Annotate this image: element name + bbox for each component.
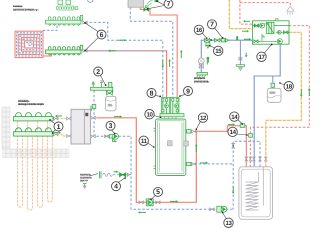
leader text makeup	[90, 174, 99, 176]
flow arrow V1 down	[162, 60, 164, 66]
leader 16	[202, 33, 206, 38]
pump 3 group on HP return	[105, 133, 119, 141]
flow arrow brine upper left	[57, 115, 62, 117]
label 12	[198, 113, 207, 122]
leader 4	[119, 178, 126, 182]
svg-text:dolnego źródła ciepła: dolnego źródła ciepła	[18, 103, 44, 106]
flow arrow drain down	[245, 53, 247, 56]
brine manifold M3	[14, 113, 54, 121]
leader lines	[50, 1, 284, 219]
label 15	[214, 46, 223, 55]
flow arrow red to tank right	[228, 123, 233, 125]
distribution beam 10	[160, 114, 184, 120]
leader 3	[112, 130, 115, 134]
svg-text:16: 16	[196, 27, 203, 34]
svg-text:ogrzewania podłogowego: ogrzewania podłogowego	[13, 8, 39, 11]
CWU expansion vessel 18	[267, 83, 281, 102]
risers group above buffer	[162, 98, 180, 114]
expansion safety group 2	[91, 81, 113, 109]
label 1	[54, 122, 63, 131]
label 14a	[230, 112, 239, 121]
svg-text:zimnej wody: zimnej wody	[194, 80, 209, 83]
svg-text:4: 4	[114, 184, 118, 191]
buffer lower stub valve	[187, 162, 197, 165]
leader 1a	[50, 120, 55, 124]
leader 9	[180, 94, 185, 96]
wire: cold water from station to tank	[254, 44, 280, 167]
leader 14a	[238, 120, 243, 125]
leader 11	[148, 143, 154, 147]
svg-text:14: 14	[230, 129, 237, 136]
svg-text:3: 3	[109, 123, 113, 130]
leader 7a1	[157, 1, 165, 5]
PIPES-LAYER	[57, 0, 310, 209]
text block ground source	[18, 100, 44, 105]
floor heating spiral red	[15, 31, 52, 57]
label 4	[112, 182, 121, 191]
SPIRAL	[15, 25, 57, 58]
label 6	[97, 30, 106, 39]
wireless sensor square	[155, 0, 159, 2]
label 10	[145, 110, 154, 119]
flow arrow circ vertical down	[300, 89, 302, 95]
buffer sensor pockets	[168, 141, 173, 146]
drain valve and funnel	[236, 57, 244, 71]
svg-text:17: 17	[259, 54, 266, 61]
wire: underfloor return H1	[85, 22, 163, 97]
wire: underfloor supply H2 dash	[85, 50, 167, 52]
flow arrow H1 right	[118, 39, 124, 41]
radiator	[128, 0, 144, 9]
text block underfloor	[13, 5, 34, 10]
valve 14b on dashed red drop	[249, 134, 253, 138]
heat pump	[71, 109, 91, 144]
leader dots	[49, 1, 280, 214]
leader 12	[196, 121, 200, 129]
label 8	[147, 89, 156, 98]
water meter	[198, 58, 204, 64]
flow arrow bottom blue left	[140, 211, 146, 213]
svg-text:7: 7	[210, 22, 214, 29]
HP unions right supply	[54, 116, 96, 138]
makeup hose 4	[99, 171, 129, 178]
flow arrow dhw dashed up	[308, 90, 310, 96]
manifold M1 upper floor-heating	[46, 15, 83, 25]
svg-text:12: 12	[200, 115, 207, 122]
DHW tank stub unions	[245, 157, 267, 161]
wire: buffer to DHW red	[194, 126, 246, 167]
circled numbers	[54, 0, 293, 228]
ground wall hatch	[2, 107, 10, 149]
valve group 7b on cold main	[215, 38, 229, 42]
svg-text:13: 13	[226, 220, 233, 227]
wire: expansion branch	[93, 90, 95, 136]
wire: buffer lower stub line	[194, 163, 233, 165]
label 18	[284, 82, 293, 91]
leader 1b	[53, 130, 56, 134]
junction dot cold main	[210, 39, 212, 41]
sensor nub on cold main	[236, 36, 238, 40]
svg-text:instalacja: instalacja	[13, 5, 23, 8]
manifold M2 lower floor-heating	[46, 45, 83, 55]
expansion vessel 2	[106, 96, 116, 111]
brine manifold M4	[14, 128, 54, 136]
buffer top stub valve 12 line	[187, 130, 197, 134]
wire: underfloor supply H2 base	[85, 51, 167, 97]
svg-text:15: 15	[215, 48, 222, 55]
ARROWS-LAYER	[54, 20, 311, 214]
flow arrow dhw vertical down	[232, 186, 234, 192]
manifold M1 union	[83, 21, 87, 24]
svg-text:11: 11	[141, 138, 148, 145]
pump 13	[210, 206, 227, 212]
cut label circle top	[88, 0, 93, 2]
flow arrow V4 up	[180, 52, 182, 58]
text block makeup	[80, 174, 91, 182]
svg-text:8: 8	[150, 90, 154, 97]
flow arrow brine lower right	[54, 132, 59, 134]
leader 2	[101, 76, 106, 86]
svg-text:6: 6	[100, 32, 104, 39]
backflow preventer 16	[204, 38, 209, 42]
svg-text:10: 10	[147, 112, 154, 119]
wire: brine upper	[57, 118, 67, 120]
flow arrow cold main right	[244, 38, 249, 40]
svg-text:zład. "x": zład. "x"	[80, 179, 88, 182]
fresh water station 17	[252, 21, 289, 44]
leader 6b	[85, 38, 98, 51]
svg-text:2: 2	[96, 69, 100, 76]
leader 6a	[85, 23, 98, 32]
label 3	[106, 121, 115, 130]
wire: DHW return dashed red right	[250, 26, 309, 167]
wire: brine lower	[57, 134, 67, 136]
label 7b	[208, 20, 217, 29]
wire: cwu vessel branch	[272, 76, 274, 88]
cold water source symbol	[197, 72, 208, 77]
drain cock corner	[83, 184, 87, 189]
flow arrow buffer stub right	[200, 162, 206, 164]
wire: circulation orange dash	[229, 0, 301, 167]
svg-text:5: 5	[156, 189, 160, 196]
wiring centre controller	[57, 0, 78, 10]
svg-text:9: 9	[186, 88, 190, 95]
safety valve 15	[205, 42, 210, 48]
leader 10	[154, 116, 161, 118]
svg-text:CWU: CWU	[270, 92, 276, 95]
flow arrow mains up	[207, 59, 209, 63]
wire: radiator return	[130, 7, 173, 97]
COMPONENTS-LAYER	[14, 0, 295, 219]
svg-text:1: 1	[57, 124, 61, 131]
flow arrow H2 left	[110, 50, 116, 52]
flow arrow dhw hot left	[245, 20, 250, 22]
svg-text:7: 7	[167, 1, 171, 8]
svg-text:napełnianie: napełnianie	[80, 173, 92, 176]
label 7a	[164, 0, 173, 8]
wireless head arcs	[147, 1, 153, 7]
wire: cold water main	[201, 40, 254, 72]
flow arrow bottom red right	[170, 200, 176, 202]
radiator thermostatic valve	[144, 6, 149, 11]
label 2	[94, 67, 103, 76]
leader 15	[210, 46, 215, 48]
union on dhw return vertical	[232, 143, 235, 148]
flow arrow makeup right	[114, 171, 117, 173]
DHW tank	[239, 167, 273, 220]
flow arrow HP supply right	[114, 116, 120, 118]
valve 14a on red line	[240, 124, 245, 128]
leader 17	[265, 45, 272, 53]
wire: cold drain branch	[239, 40, 241, 65]
flow arrow safety discharge up	[206, 59, 208, 65]
svg-text:25L: 25L	[108, 104, 113, 107]
label 11	[139, 136, 148, 145]
LABELS-LAYER	[13, 0, 293, 228]
leader 13	[223, 213, 227, 219]
svg-text:14: 14	[231, 114, 238, 121]
svg-text:uzupełnianie: uzupełnianie	[80, 176, 93, 179]
manifold M2 union	[83, 49, 87, 52]
borehole U-loops	[18, 121, 53, 210]
wire: circulation yellow base	[229, 0, 301, 167]
wire: radiator supply	[141, 7, 178, 97]
wire: HP supply red to buffer loop	[96, 118, 196, 203]
flow arrow expansion branch down	[90, 106, 92, 110]
wire: DHW coil feed blue dashed	[233, 141, 260, 209]
leader 5	[151, 196, 156, 200]
label 17	[257, 52, 266, 61]
wire: makeup water line	[113, 174, 131, 176]
leader 18	[280, 83, 284, 85]
wire: DHW hot top	[240, 0, 290, 24]
label 5	[154, 187, 163, 196]
flow arrow V2 up	[169, 61, 171, 67]
GROUND-LAYER	[2, 107, 70, 210]
leader 8	[155, 95, 160, 96]
leader 14b	[237, 134, 248, 135]
floor heating spiral blue	[17, 25, 57, 57]
wire: HP return blue dashed	[96, 136, 233, 209]
svg-text:18: 18	[286, 84, 293, 91]
label 16	[194, 25, 203, 34]
leader 7b	[215, 28, 223, 38]
leader 7a2	[148, 6, 165, 9]
label 9	[184, 87, 193, 96]
shower symbol	[287, 6, 294, 14]
text block cold water connection	[194, 77, 208, 82]
pump 5 on red bottom	[139, 201, 160, 204]
label 14b	[228, 127, 237, 136]
flow arrow circulation right	[242, 30, 247, 32]
label 13	[224, 218, 233, 227]
strainer filter	[199, 64, 203, 68]
buffer tank 11	[154, 119, 186, 176]
flow arrow red vertical up	[195, 146, 197, 152]
ground strip hatch	[2, 149, 70, 157]
